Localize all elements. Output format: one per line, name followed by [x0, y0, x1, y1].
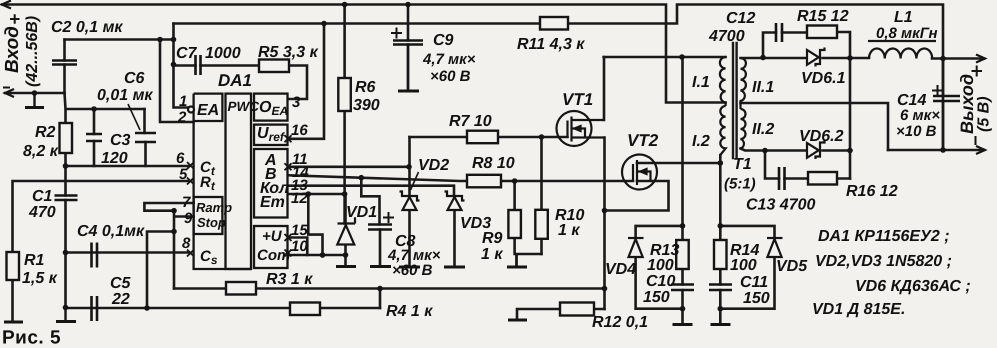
svg-text:C9: C9 — [433, 32, 454, 49]
svg-text:VD6 КД636АС ;: VD6 КД636АС ; — [855, 278, 971, 295]
svg-text:0,01 мк: 0,01 мк — [97, 87, 153, 104]
svg-text:2: 2 — [177, 109, 187, 126]
svg-text:Выход: Выход — [957, 74, 977, 134]
svg-text:Em: Em — [260, 194, 285, 211]
svg-text:Stop: Stop — [197, 215, 226, 230]
svg-text:R11 4,3 к: R11 4,3 к — [517, 36, 585, 53]
svg-text:R9: R9 — [482, 230, 503, 247]
svg-text:C11: C11 — [740, 274, 768, 291]
svg-text:II.1: II.1 — [752, 79, 774, 96]
svg-text:100: 100 — [730, 257, 757, 274]
svg-text:C10: C10 — [646, 273, 675, 290]
svg-text:(42...56В): (42...56В) — [24, 16, 41, 87]
svg-text:VT2: VT2 — [627, 131, 659, 150]
svg-text:DA1 КР1156ЕУ2 ;: DA1 КР1156ЕУ2 ; — [818, 228, 950, 245]
svg-text:+U: +U — [262, 228, 283, 245]
svg-text:5: 5 — [179, 166, 188, 183]
svg-text:R4 1 к: R4 1 к — [386, 303, 433, 320]
svg-text:C4 0,1мк: C4 0,1мк — [77, 223, 145, 240]
svg-text:R7 10: R7 10 — [449, 113, 492, 130]
svg-text:×10 В: ×10 В — [896, 123, 937, 140]
svg-text:(5 В): (5 В) — [976, 96, 993, 132]
svg-text:Вход: Вход — [2, 26, 23, 73]
svg-text:R16 12: R16 12 — [846, 183, 898, 200]
svg-text:16: 16 — [291, 122, 308, 139]
svg-text:R5 3,3 к: R5 3,3 к — [258, 44, 319, 61]
svg-text:R3 1 к: R3 1 к — [266, 271, 313, 288]
svg-text:I.1: I.1 — [692, 74, 710, 91]
svg-text:С6: С6 — [124, 70, 145, 87]
svg-text:OEA: OEA — [259, 99, 288, 118]
svg-text:(5:1): (5:1) — [724, 176, 756, 193]
svg-text:12: 12 — [291, 190, 308, 207]
svg-text:1 к: 1 к — [558, 222, 580, 239]
svg-text:DA1: DA1 — [218, 71, 252, 90]
svg-text:R2: R2 — [35, 124, 56, 141]
svg-text:VD4: VD4 — [605, 261, 636, 278]
svg-text:R6: R6 — [355, 79, 376, 96]
svg-text:R8 10: R8 10 — [472, 155, 515, 172]
svg-text:T1: T1 — [733, 156, 752, 173]
svg-text:4,7 мк×: 4,7 мк× — [422, 51, 476, 68]
svg-text:VD1: VD1 — [346, 204, 377, 221]
svg-text:22: 22 — [111, 291, 130, 308]
svg-text:EA: EA — [197, 102, 219, 119]
svg-text:1 к: 1 к — [481, 246, 503, 263]
svg-text:8,2 к: 8,2 к — [23, 143, 59, 160]
svg-text:PWC: PWC — [228, 99, 260, 114]
svg-text:120: 120 — [101, 150, 128, 167]
svg-text:6 мк×: 6 мк× — [900, 107, 940, 124]
svg-text:VD1 Д 815Е.: VD1 Д 815Е. — [812, 301, 905, 318]
svg-text:C7: C7 — [176, 45, 198, 62]
svg-text:1: 1 — [179, 93, 187, 110]
svg-text:VD2: VD2 — [418, 157, 449, 174]
svg-text:0,8 мкГн: 0,8 мкГн — [876, 25, 938, 42]
svg-text:Ramp: Ramp — [196, 200, 232, 215]
svg-text:×60 В: ×60 В — [430, 68, 471, 85]
svg-text:C1: C1 — [32, 188, 53, 205]
svg-text:Рис. 5: Рис. 5 — [2, 328, 61, 348]
svg-text:II.2: II.2 — [752, 121, 774, 138]
svg-text:150: 150 — [743, 290, 770, 307]
svg-text:C2 0,1 мк: C2 0,1 мк — [51, 19, 123, 36]
svg-text:9: 9 — [184, 210, 193, 227]
svg-text:4700: 4700 — [708, 28, 745, 45]
svg-text:R12 0,1: R12 0,1 — [592, 314, 648, 331]
svg-text:VD6.2: VD6.2 — [799, 128, 844, 145]
svg-text:3: 3 — [292, 94, 301, 111]
svg-text:C5: C5 — [110, 275, 132, 292]
svg-text:L1: L1 — [894, 9, 913, 26]
svg-text:VT1: VT1 — [562, 90, 593, 109]
svg-text:Cs: Cs — [200, 248, 218, 267]
svg-text:VD2,VD3 1N5820 ;: VD2,VD3 1N5820 ; — [815, 253, 952, 270]
svg-text:390: 390 — [353, 97, 380, 114]
svg-text:1,5 к: 1,5 к — [22, 270, 58, 287]
svg-text:Uref: Uref — [257, 125, 285, 144]
svg-text:10: 10 — [291, 238, 308, 255]
svg-text:I.2: I.2 — [692, 133, 710, 150]
svg-text:R1: R1 — [24, 252, 45, 269]
svg-text:Com: Com — [257, 247, 290, 264]
svg-text:C13 4700: C13 4700 — [746, 197, 815, 214]
svg-text:C3: C3 — [110, 132, 131, 149]
svg-text:6: 6 — [176, 150, 185, 167]
svg-text:8: 8 — [182, 235, 191, 252]
svg-text:VD6.1: VD6.1 — [801, 70, 846, 87]
svg-text:7: 7 — [182, 194, 191, 211]
svg-text:C12: C12 — [726, 10, 755, 27]
svg-text:15: 15 — [291, 222, 308, 239]
svg-text:R15 12: R15 12 — [797, 8, 849, 25]
svg-text:×60 В: ×60 В — [392, 262, 433, 279]
svg-text:100: 100 — [647, 257, 674, 274]
svg-text:1000: 1000 — [205, 45, 241, 62]
svg-text:470: 470 — [28, 204, 56, 221]
svg-text:150: 150 — [643, 289, 670, 306]
svg-text:VD5: VD5 — [776, 258, 808, 275]
